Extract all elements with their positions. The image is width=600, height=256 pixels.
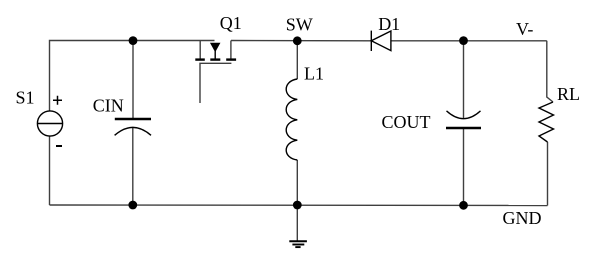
label Q1	[220, 13, 242, 33]
svg-text:L1: L1	[304, 64, 324, 84]
node COUT top junction dot	[459, 36, 468, 45]
svg-text:CIN: CIN	[93, 96, 124, 116]
ground	[289, 241, 307, 247]
svg-text:RL: RL	[557, 84, 580, 104]
label V-	[516, 19, 533, 39]
wire CIN top lead	[132, 41, 134, 119]
svg-text:V-: V-	[516, 19, 533, 39]
node L1 bottom junction dot	[293, 201, 302, 210]
svg-text:SW: SW	[286, 14, 313, 34]
label S1	[16, 88, 35, 108]
resistor RL	[539, 102, 554, 142]
svg-text:COUT: COUT	[382, 112, 431, 132]
wire right branch down to RL	[547, 41, 553, 102]
svg-text:S1: S1	[16, 88, 35, 108]
node SW junction dot	[293, 36, 302, 45]
wire COUT bottom lead	[463, 128, 465, 205]
wire RL bottom lead	[547, 142, 549, 206]
inductor L1	[286, 79, 297, 160]
wire top rail Q1 drain to diode cathode	[231, 40, 371, 42]
svg-text:GND: GND	[503, 208, 542, 228]
label CIN	[93, 96, 124, 116]
wire COUT top lead	[463, 41, 465, 119]
svg-text:Q1: Q1	[220, 13, 242, 33]
capacitor CIN	[115, 119, 151, 135]
node CIN bottom junction dot	[128, 201, 137, 210]
wire top rail left (Vin to Q1 source)	[50, 41, 215, 112]
wire left branch S1 bottom to rail	[49, 136, 51, 205]
node CIN top junction dot	[129, 36, 138, 45]
node COUT bottom junction dot	[459, 201, 468, 210]
svg-text:D1: D1	[378, 14, 400, 34]
label RL	[557, 84, 580, 104]
diode D1	[371, 31, 391, 51]
wire L1 bottom to rail	[296, 160, 298, 205]
transistor Q1	[195, 41, 236, 104]
capacitor COUT	[446, 111, 481, 128]
wire bottom rail (GND)	[50, 204, 548, 207]
label GND	[503, 208, 542, 228]
voltage source S1	[37, 96, 62, 146]
label L1	[304, 64, 324, 84]
wire top rail diode anode to V- corner	[391, 40, 547, 42]
wire CIN bottom lead	[132, 127, 134, 205]
wire rail to ground symbol	[296, 205, 298, 241]
wire SW to L1 top	[296, 41, 298, 79]
label COUT	[382, 112, 431, 132]
label SW	[286, 14, 313, 34]
label D1	[378, 14, 400, 34]
